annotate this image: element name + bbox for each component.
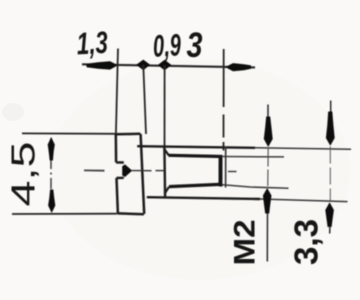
slot arrow blob — [122, 164, 132, 177]
svg-text:4,5: 4,5 — [5, 142, 42, 207]
thread start vertical line — [163, 147, 166, 198]
shaft bottom outline — [147, 197, 260, 199]
svg-text:0,9: 0,9 — [152, 27, 182, 63]
screw head bottom edge — [117, 212, 143, 215]
extension line x=223.5 (dashed) — [223, 49, 225, 151]
top dimension line — [82, 64, 255, 67]
diamond tick at x=143 — [136, 60, 150, 71]
thread inner bottom line — [169, 184, 220, 186]
svg-text:3,3: 3,3 — [288, 219, 325, 265]
slot notch bottom — [116, 177, 123, 180]
M2 down arrow — [264, 117, 273, 148]
3,3 dim middle (dashed faint) — [329, 147, 331, 202]
extension line x=164.6 — [164, 65, 166, 147]
thread inner bottom extension / M2 arrow target — [220, 185, 289, 189]
left dim: extension of head top edge — [22, 132, 116, 134]
arrow pointing right at x=118 (1,3 left arrow) — [87, 61, 119, 69]
3,3 down arrow — [326, 112, 335, 146]
M2 up arrow — [263, 188, 272, 214]
thread end bar — [219, 158, 223, 187]
thread inner top extension — [222, 156, 284, 158]
screw head top edge — [116, 132, 141, 135]
thread chamfer bottom-left — [165, 187, 169, 194]
centerline dash right of thread end — [228, 171, 237, 173]
down arrow 4,5 — [48, 190, 55, 214]
3,3 dimension tail top — [330, 101, 332, 114]
M2 dim tail bottom — [266, 214, 268, 262]
shaft top extension to right edge — [255, 148, 351, 150]
M2 dim middle (dashed) — [267, 148, 269, 187]
thread inner top line — [169, 155, 223, 156]
slot notch top — [116, 161, 124, 164]
centerline dash 3 — [156, 170, 165, 172]
3,3 dim tail bottom — [329, 226, 331, 234]
left dim: extension of head bottom edge — [12, 213, 117, 215]
M2 dimension line tail top — [267, 105, 269, 119]
extension line above head left face x=116.5 — [116, 49, 118, 135]
screw head right edge — [141, 134, 145, 214]
svg-text:3: 3 — [187, 26, 203, 65]
up arrow 4,5 — [48, 137, 55, 161]
svg-text:M2: M2 — [229, 220, 262, 266]
thread chamfer top-left — [165, 150, 169, 156]
screw head left edge (upper) — [115, 134, 118, 163]
shaft bottom extension to right edge — [260, 199, 348, 202]
svg-text:1,3: 1,3 — [76, 25, 109, 62]
extension line x=143.3 — [143, 65, 146, 134]
shaft top outline — [137, 146, 255, 148]
centerline dash 2 — [132, 170, 152, 172]
arrow pointing left at x=225 (3 right arrow) — [225, 63, 251, 71]
shaft end thin vertical line — [225, 147, 227, 188]
left dimension line x=51 — [50, 138, 52, 212]
3,3 up arrow — [325, 202, 334, 227]
screw head left edge (lower) — [117, 178, 118, 214]
diamond tick at x=164.6 — [158, 60, 172, 71]
centerline dash 1 — [84, 169, 105, 171]
